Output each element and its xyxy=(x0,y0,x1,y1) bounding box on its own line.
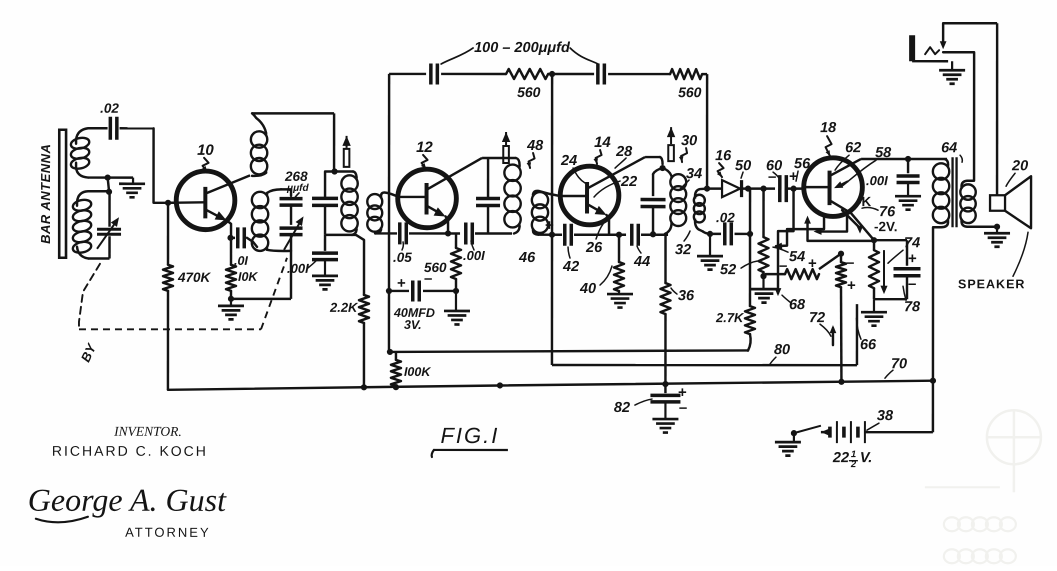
svg-text:12: 12 xyxy=(416,139,433,156)
svg-text:26: 26 xyxy=(585,240,603,256)
svg-text:ATTORNEY: ATTORNEY xyxy=(125,525,211,540)
svg-text:2.7K: 2.7K xyxy=(715,310,745,325)
svg-text:46: 46 xyxy=(518,250,536,266)
svg-text:24: 24 xyxy=(560,153,577,169)
svg-text:44: 44 xyxy=(633,254,650,270)
svg-text:10: 10 xyxy=(197,142,214,159)
svg-text:George A. Gust: George A. Gust xyxy=(28,482,227,518)
svg-text:+: + xyxy=(908,250,917,267)
svg-text:80: 80 xyxy=(774,342,790,358)
svg-text:I0K: I0K xyxy=(238,270,258,284)
svg-text:40: 40 xyxy=(579,281,596,297)
svg-text:–: – xyxy=(779,257,787,274)
svg-text:RICHARD C. KOCH: RICHARD C. KOCH xyxy=(52,443,208,459)
svg-text:560: 560 xyxy=(517,84,541,100)
svg-text:INVENTOR.: INVENTOR. xyxy=(113,424,182,439)
svg-text:3V.: 3V. xyxy=(404,318,422,332)
svg-text:14: 14 xyxy=(594,134,611,151)
svg-text:.00I: .00I xyxy=(287,261,309,276)
svg-text:66: 66 xyxy=(860,337,877,353)
svg-text:30: 30 xyxy=(681,133,697,149)
svg-text:2.2K: 2.2K xyxy=(329,300,359,315)
svg-text:268: 268 xyxy=(284,169,308,184)
svg-text:470K: 470K xyxy=(177,270,212,285)
svg-text:+: + xyxy=(545,217,554,234)
svg-text:FIG.I: FIG.I xyxy=(440,423,499,448)
svg-text:100 – 200μμfd: 100 – 200μμfd xyxy=(474,40,571,56)
svg-text:42: 42 xyxy=(562,259,579,275)
svg-text:48: 48 xyxy=(526,138,544,154)
svg-text:-2V.: -2V. xyxy=(874,219,898,234)
svg-text:SPEAKER: SPEAKER xyxy=(958,277,1025,291)
svg-text:36: 36 xyxy=(678,288,695,304)
svg-text:18: 18 xyxy=(820,120,837,136)
svg-text:.05: .05 xyxy=(393,250,412,265)
svg-text:.02: .02 xyxy=(716,210,735,225)
svg-text:μμfd: μμfd xyxy=(286,183,309,194)
svg-text:78: 78 xyxy=(904,299,921,315)
svg-text:22: 22 xyxy=(832,450,849,466)
svg-text:76: 76 xyxy=(879,204,896,220)
svg-text:–: – xyxy=(679,399,687,416)
svg-text:–: – xyxy=(846,254,854,271)
svg-text:+: + xyxy=(847,277,856,294)
svg-text:16: 16 xyxy=(715,148,732,164)
svg-text:20: 20 xyxy=(1011,158,1028,174)
svg-text:.00I: .00I xyxy=(866,173,888,188)
svg-text:74: 74 xyxy=(904,235,920,251)
svg-text:68: 68 xyxy=(789,297,806,313)
svg-text:38: 38 xyxy=(877,408,894,424)
svg-text:560: 560 xyxy=(678,84,702,100)
svg-text:60: 60 xyxy=(766,158,782,174)
svg-text:64: 64 xyxy=(941,140,957,156)
svg-text:V.: V. xyxy=(860,450,872,466)
svg-text:–: – xyxy=(424,270,432,287)
svg-text:52: 52 xyxy=(720,262,736,278)
svg-text:82: 82 xyxy=(614,400,630,416)
svg-text:32: 32 xyxy=(675,242,691,258)
svg-text:I00K: I00K xyxy=(404,365,431,379)
svg-text:+: + xyxy=(808,255,817,272)
svg-text:54: 54 xyxy=(789,249,805,265)
svg-text:–: – xyxy=(908,275,916,292)
svg-text:+: + xyxy=(397,275,406,292)
svg-text:28: 28 xyxy=(615,144,633,160)
svg-text:72: 72 xyxy=(809,310,825,326)
svg-text:22: 22 xyxy=(620,174,637,190)
svg-text:.02: .02 xyxy=(100,101,119,116)
svg-text:.0I: .0I xyxy=(234,254,248,268)
svg-text:62: 62 xyxy=(845,140,861,156)
svg-text:BAR ANTENNA: BAR ANTENNA xyxy=(38,144,53,244)
